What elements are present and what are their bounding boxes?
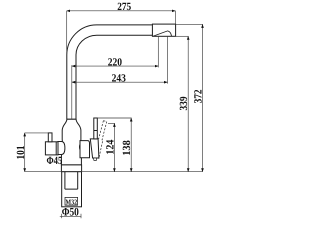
spout tip body xyxy=(152,24,175,36)
faucet body vase xyxy=(61,119,81,165)
dim 220 line xyxy=(72,65,159,67)
svg-text:138: 138 xyxy=(121,140,133,156)
dim phi50 left tick xyxy=(61,214,63,218)
svg-text:243: 243 xyxy=(112,73,127,85)
right lever tip piece xyxy=(94,158,97,160)
spout inner curve xyxy=(76,35,152,119)
dim 243 right extension xyxy=(167,36,169,83)
dim 372 top extension xyxy=(176,23,203,25)
svg-text:275: 275 xyxy=(117,1,131,13)
M32 label box xyxy=(65,197,78,205)
riser joint line xyxy=(67,118,76,120)
dashed lever rotated position xyxy=(94,121,108,159)
counter datum line xyxy=(25,171,203,173)
dim 275 right extension xyxy=(175,11,177,24)
dim 101 vertical line xyxy=(24,133,26,172)
svg-text:124: 124 xyxy=(105,139,117,154)
left handle stem xyxy=(48,133,52,142)
right lever connector boss xyxy=(80,141,90,158)
dim 275 line xyxy=(67,10,176,12)
right lever bar divider xyxy=(94,130,98,132)
svg-text:Φ45: Φ45 xyxy=(47,155,63,167)
dim 220/243 axis extension xyxy=(71,65,73,119)
dim 372 vertical line xyxy=(202,24,204,171)
dim phi50 right tick xyxy=(80,214,82,218)
left handle round cap xyxy=(58,142,65,155)
left handle face line xyxy=(55,142,57,155)
dim 275 left extension xyxy=(66,11,68,54)
dim 124 vertical line xyxy=(113,123,115,171)
left handle body xyxy=(45,142,58,155)
dim 220 right extension xyxy=(157,36,159,67)
spout outer curve xyxy=(67,25,153,119)
dim 243 line xyxy=(72,81,168,83)
shank inner bore xyxy=(65,172,78,189)
svg-text:339: 339 xyxy=(178,96,190,110)
svg-text:220: 220 xyxy=(108,56,123,68)
right lever lower body xyxy=(90,139,99,158)
dim 101 top extension xyxy=(25,132,49,134)
svg-text:101: 101 xyxy=(15,146,27,160)
svg-text:Φ50: Φ50 xyxy=(62,207,79,219)
svg-text:M32: M32 xyxy=(66,198,78,207)
dim 339 vertical line xyxy=(187,36,189,171)
spout tip aerator swoosh xyxy=(153,31,171,36)
dim 124 top extension xyxy=(108,122,115,124)
shank outer xyxy=(62,172,82,207)
dim 138 top extension xyxy=(97,117,131,119)
dim 138 vertical line xyxy=(130,118,132,172)
svg-text:372: 372 xyxy=(193,89,205,103)
base flange xyxy=(61,165,81,172)
dim 339 top extension xyxy=(176,35,189,37)
dim phi50 line xyxy=(60,216,81,218)
right lever bar xyxy=(94,118,98,139)
